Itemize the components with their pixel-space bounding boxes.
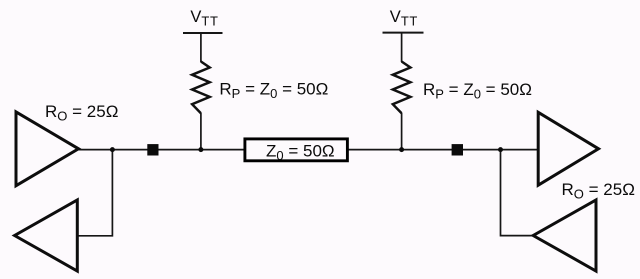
black square marker right xyxy=(452,144,463,155)
black square marker left xyxy=(147,144,158,155)
wire: left receiver drop vertical xyxy=(78,150,113,236)
svg-text:RO = 25Ω: RO = 25Ω xyxy=(562,180,635,202)
wire: right VTT stub upper xyxy=(401,33,403,62)
power rail VTT left bar xyxy=(183,32,223,34)
wire: left VTT stub upper xyxy=(200,33,202,62)
wire: right VTT stub lower xyxy=(401,113,403,150)
svg-text:VTT: VTT xyxy=(390,8,418,28)
op-amp buffer A1 driver left xyxy=(16,112,79,186)
power rail VTT right bar xyxy=(383,32,424,34)
wire: right driver drop vertical xyxy=(501,150,534,236)
svg-text:Z0 = 50Ω: Z0 = 50Ω xyxy=(266,141,335,163)
junction node left A xyxy=(110,147,115,152)
svg-text:RO = 25Ω: RO = 25Ω xyxy=(45,102,118,124)
op-amp buffer A3 receiver right (points right) xyxy=(538,112,598,185)
junction node right D xyxy=(498,147,503,152)
resistor RP1 zigzag xyxy=(192,62,210,114)
svg-text:RP = Z0 = 50Ω: RP = Z0 = 50Ω xyxy=(423,80,532,102)
wire: left VTT stub lower xyxy=(200,113,202,150)
op-amp buffer A4 driver right (points left) xyxy=(533,200,596,271)
wire: main bus right segment xyxy=(348,149,539,151)
junction node left B xyxy=(198,147,203,152)
svg-text:VTT: VTT xyxy=(190,8,218,28)
op-amp buffer A2 receiver left (points left) xyxy=(15,200,78,271)
wire: main bus left segment xyxy=(78,149,245,151)
junction node right C xyxy=(399,147,404,152)
transmission line Z0 box xyxy=(245,139,348,161)
svg-text:RP = Z0 = 50Ω: RP = Z0 = 50Ω xyxy=(219,80,328,102)
resistor RP2 zigzag xyxy=(393,62,411,114)
